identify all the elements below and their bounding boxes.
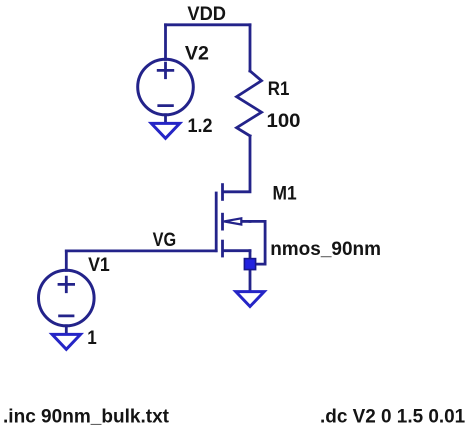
wire V1 bottom stub: [65, 326, 68, 334]
ground under V2: [151, 123, 179, 138]
wire source down: [249, 251, 252, 291]
svg-text:VDD: VDD: [187, 4, 226, 25]
wire V1 top stub: [65, 251, 68, 271]
svg-text:VG: VG: [153, 230, 177, 251]
voltage source V2: [138, 59, 194, 115]
wire V2 top stub: [164, 25, 167, 60]
transistor M1: [216, 185, 250, 256]
svg-text:V1: V1: [88, 255, 110, 276]
svg-text:nmos_90nm: nmos_90nm: [270, 239, 381, 260]
svg-text:.inc 90nm_bulk.txt: .inc 90nm_bulk.txt: [3, 406, 170, 427]
ground under V1: [52, 334, 80, 349]
node junction square (source/bulk tie): [244, 259, 255, 270]
svg-text:100: 100: [267, 111, 301, 132]
resistor R1: [237, 71, 262, 136]
ground under M1 source: [236, 292, 264, 307]
wire R1 top lead: [249, 25, 252, 71]
svg-text:1: 1: [87, 328, 97, 349]
svg-text:M1: M1: [273, 184, 298, 205]
wire R1 bottom to drain: [224, 136, 250, 192]
svg-text:1.2: 1.2: [188, 116, 213, 137]
wire VG net: [66, 249, 216, 252]
wire VDD net horizontal: [166, 23, 251, 26]
svg-text:.dc V2 0 1.5 0.01: .dc V2 0 1.5 0.01: [320, 406, 466, 427]
svg-text:V2: V2: [185, 44, 209, 65]
wire bulk to source junction: [250, 221, 265, 264]
wire V2 bottom stub: [164, 115, 167, 123]
voltage source V1: [39, 270, 95, 326]
svg-text:R1: R1: [268, 79, 290, 100]
